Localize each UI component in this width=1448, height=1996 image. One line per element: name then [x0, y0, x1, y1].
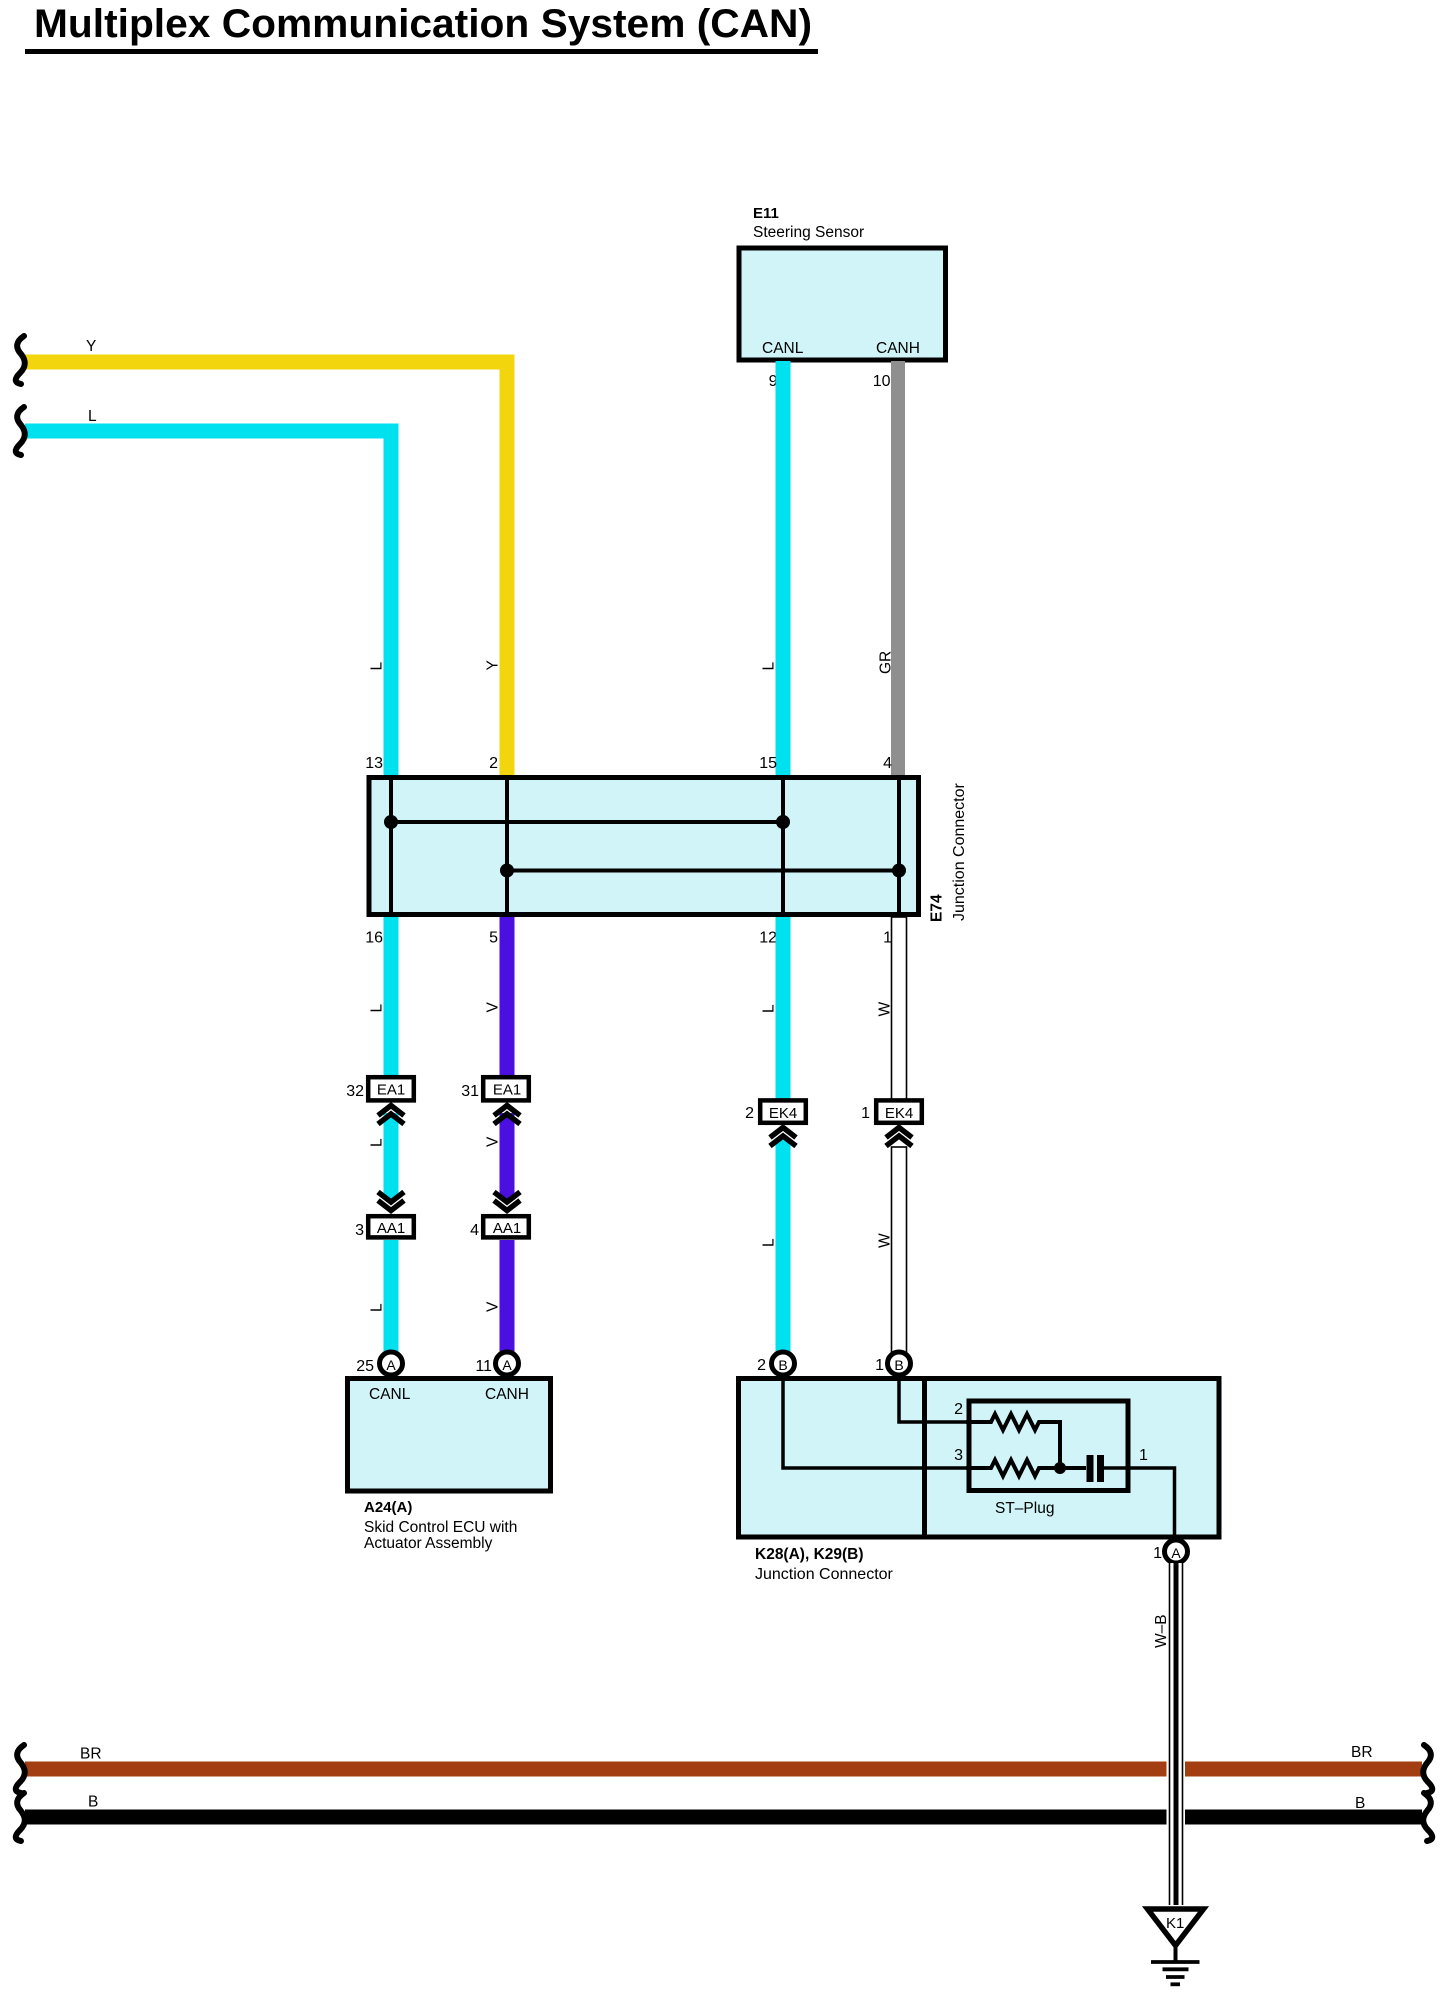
svg-text:Skid Control ECU with: Skid Control ECU with — [364, 1519, 517, 1536]
svg-text:Steering Sensor: Steering Sensor — [753, 224, 864, 241]
svg-text:3: 3 — [954, 1447, 963, 1464]
squiggle right end of BR wire — [1423, 1745, 1432, 1793]
svg-text:1: 1 — [861, 1105, 870, 1122]
svg-text:B: B — [1355, 1795, 1365, 1812]
svg-text:A: A — [1171, 1545, 1181, 1561]
wire L from EK4 to K28 pin 2 — [776, 1138, 791, 1353]
svg-text:W: W — [877, 1002, 894, 1017]
junction dot E74 pin15 — [776, 815, 790, 829]
svg-text:V: V — [485, 1002, 502, 1013]
svg-text:E11: E11 — [753, 205, 779, 222]
svg-text:11: 11 — [475, 1358, 492, 1375]
svg-text:1: 1 — [1153, 1545, 1162, 1562]
svg-text:A: A — [386, 1357, 396, 1373]
svg-text:Junction Connector: Junction Connector — [755, 1566, 894, 1583]
component K28/K29 junction connector box — [739, 1379, 1220, 1584]
svg-text:B: B — [88, 1794, 98, 1811]
connector EA1 pin 31 — [461, 1077, 529, 1124]
squiggle left end of L wire — [16, 407, 25, 455]
svg-text:GR: GR — [878, 651, 895, 674]
svg-text:CANL: CANL — [762, 340, 804, 357]
svg-text:L: L — [761, 1004, 778, 1013]
svg-text:AA1: AA1 — [377, 1220, 405, 1237]
wire L between EA1 and AA1 — [384, 1113, 399, 1200]
svg-text:EA1: EA1 — [493, 1082, 521, 1099]
svg-text:31: 31 — [461, 1083, 479, 1100]
svg-text:K28(A), K29(B): K28(A), K29(B) — [755, 1546, 864, 1563]
E74 internal vertical line pin 2-5 — [505, 775, 509, 917]
svg-text:B: B — [778, 1357, 787, 1373]
wire V between EA1 and AA1 — [500, 1113, 515, 1200]
junction dot E74 pin5 — [500, 864, 514, 878]
E74 internal vertical line pin 15-12 — [781, 775, 785, 917]
svg-text:13: 13 — [365, 755, 383, 772]
svg-text:Multiplex Communication System: Multiplex Communication System (CAN) — [34, 2, 812, 46]
wire L horizontal from left edge to pin 13 column — [25, 431, 391, 777]
svg-text:W–B: W–B — [1153, 1614, 1170, 1648]
title underline — [25, 49, 818, 54]
wire V from E74 pin 5 to EA1 — [500, 917, 515, 1078]
svg-text:L: L — [369, 662, 386, 671]
ground K1 symbol — [1148, 1909, 1204, 1984]
svg-text:V: V — [485, 1136, 502, 1147]
svg-text:3: 3 — [355, 1222, 364, 1239]
svg-text:12: 12 — [759, 930, 777, 947]
svg-text:L: L — [369, 1138, 386, 1147]
svg-text:2: 2 — [757, 1357, 766, 1374]
svg-text:EK4: EK4 — [769, 1105, 797, 1122]
svg-text:Y: Y — [485, 660, 502, 670]
wire L from E74 pin 16 to EA1 — [384, 917, 399, 1078]
svg-text:BR: BR — [1351, 1744, 1373, 1761]
svg-text:2: 2 — [954, 1401, 963, 1418]
svg-text:ST–Plug: ST–Plug — [995, 1500, 1054, 1517]
wire L from E11 CANL pin 9 to E74 pin 15 — [776, 361, 791, 777]
svg-text:AA1: AA1 — [493, 1220, 521, 1237]
squiggle right end of B wire — [1423, 1793, 1432, 1841]
junction dot in ST-Plug — [1054, 1462, 1066, 1474]
junction connector E74 box — [369, 778, 919, 915]
svg-text:5: 5 — [489, 930, 498, 947]
wire Y horizontal from left edge to pin 2 column — [25, 362, 507, 777]
squiggle left end of B wire — [16, 1793, 25, 1841]
wire L from AA1 to A24 pin 25 — [384, 1240, 399, 1353]
svg-text:CANH: CANH — [485, 1386, 529, 1403]
wire V from AA1 to A24 pin 11 — [500, 1240, 515, 1353]
svg-text:1: 1 — [1139, 1447, 1148, 1464]
svg-text:25: 25 — [356, 1358, 374, 1375]
svg-text:4: 4 — [883, 755, 892, 772]
E74 internal vertical line pin 13-16 — [389, 775, 393, 917]
svg-text:B: B — [894, 1357, 903, 1373]
svg-text:V: V — [485, 1301, 502, 1312]
svg-text:2: 2 — [745, 1105, 754, 1122]
svg-text:15: 15 — [759, 755, 777, 772]
svg-text:L: L — [369, 1303, 386, 1312]
wire L from E74 pin 12 to EK4 — [776, 917, 791, 1100]
svg-text:EA1: EA1 — [377, 1082, 405, 1099]
wire from capacitor to K28 pin 1 bottom — [1104, 1468, 1175, 1540]
wire from K28 pin 1 to ST-Plug pin 2 — [899, 1375, 969, 1422]
resistor R top in ST-Plug — [966, 1414, 1060, 1468]
connector AA1 pin 3 — [355, 1192, 414, 1239]
ST-Plug box — [969, 1401, 1128, 1491]
svg-text:10: 10 — [873, 373, 891, 390]
svg-text:K1: K1 — [1166, 1915, 1184, 1932]
component A24 Skid Control ECU box — [348, 1379, 551, 1553]
svg-text:EK4: EK4 — [885, 1105, 913, 1122]
svg-text:32: 32 — [346, 1083, 364, 1100]
svg-text:4: 4 — [470, 1222, 479, 1239]
wire GR from E11 CANH pin 10 to E74 pin 4 — [891, 361, 905, 777]
component E11 Steering Sensor box — [739, 205, 946, 360]
wire BR bus horizontal — [25, 1762, 1422, 1777]
svg-text:L: L — [761, 662, 778, 671]
resistor R bottom in ST-Plug — [966, 1460, 1086, 1476]
wire W-B from K28 circle A to ground K1 — [1167, 1563, 1186, 1905]
capacitor in ST-Plug — [1087, 1455, 1094, 1482]
svg-text:L: L — [88, 408, 97, 425]
svg-text:E74: E74 — [929, 894, 946, 922]
svg-text:CANH: CANH — [876, 340, 920, 357]
junction dot E74 pin13 — [384, 815, 398, 829]
svg-text:BR: BR — [80, 1746, 102, 1763]
K28 internal divider — [922, 1376, 927, 1539]
connector AA1 pin 4 — [470, 1192, 529, 1239]
svg-text:CANL: CANL — [369, 1386, 411, 1403]
E74 internal bus CANL horizontal — [391, 820, 783, 824]
squiggle left end of BR wire — [16, 1745, 25, 1793]
svg-text:L: L — [761, 1238, 778, 1247]
wire W from EK4 to K28 pin 1 — [892, 1147, 907, 1353]
svg-text:A: A — [502, 1357, 512, 1373]
svg-text:A24(A): A24(A) — [364, 1499, 412, 1516]
wire W from E74 pin 1 to EK4 — [892, 917, 907, 1100]
svg-text:16: 16 — [365, 930, 383, 947]
E74 internal bus CANH horizontal — [507, 869, 899, 873]
svg-text:Y: Y — [86, 338, 96, 355]
svg-text:Actuator Assembly: Actuator Assembly — [364, 1535, 493, 1552]
connector EK4 pin 1 — [861, 1100, 922, 1146]
connector EA1 pin 32 — [346, 1077, 414, 1124]
svg-text:L: L — [369, 1004, 386, 1013]
svg-text:W: W — [877, 1233, 894, 1248]
svg-text:1: 1 — [875, 1357, 884, 1374]
wire from K28 pin 2 to ST-Plug pin 3 — [783, 1375, 969, 1468]
connector EK4 pin 2 — [745, 1100, 806, 1146]
wire B bus horizontal — [25, 1810, 1422, 1825]
svg-text:Junction Connector: Junction Connector — [951, 782, 968, 921]
svg-text:2: 2 — [489, 755, 498, 772]
E74 internal vertical line pin 4-1 — [897, 775, 901, 917]
squiggle left end of Y wire — [16, 336, 25, 384]
junction dot E74 pin1 — [892, 864, 906, 878]
